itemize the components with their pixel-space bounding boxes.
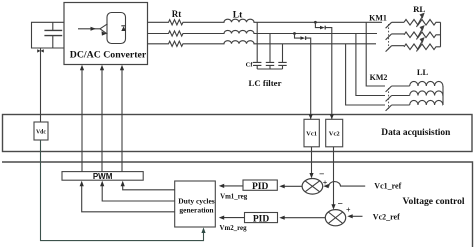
KM2 switch row 3 — [386, 105, 410, 111]
wire Vc2 box down to junction 2 — [333, 147, 335, 205]
RL arrow row 2 — [417, 26, 424, 40]
junction2 to PID2 wire — [284, 217, 325, 219]
wire into Vc2 box with arrow — [331, 115, 333, 119]
LL coil row 2 — [410, 91, 443, 96]
svg-text:KM2: KM2 — [370, 73, 388, 82]
svg-text:KM1: KM1 — [369, 14, 387, 23]
summing junction 2 — [325, 210, 345, 226]
LC filter common rail — [257, 68, 282, 70]
PID2 to duty wire — [224, 217, 245, 219]
KM2 tap from line 3 — [346, 44, 385, 105]
svg-text:PID: PID — [252, 182, 269, 192]
KM1 switch row 2 — [386, 34, 404, 40]
svg-text:LL: LL — [417, 67, 429, 77]
LC filter capacitor branch 1 — [253, 22, 261, 69]
svg-text:Data acquisistion: Data acquisistion — [381, 128, 451, 138]
Vc1 box — [304, 119, 319, 147]
svg-text:Vc1: Vc1 — [306, 131, 317, 138]
phase line 1 with Rt and Lt — [148, 19, 383, 25]
KM2 tap from line 1 — [366, 22, 385, 86]
svg-text:Duty cycles: Duty cycles — [178, 196, 215, 205]
LL right common vertical — [442, 86, 444, 105]
wire Vc1 box to junction 1 — [311, 147, 313, 174]
Vdc sensor tap (bowtie) — [37, 49, 44, 52]
svg-text:Voltage control: Voltage control — [403, 196, 465, 207]
IGBT symbol inside converter — [78, 13, 126, 44]
wire: dc bus tap down to Vdc box — [40, 48, 42, 122]
svg-text:Vm2_reg: Vm2_reg — [220, 225, 248, 232]
svg-text:DC/AC Converter: DC/AC Converter — [70, 50, 147, 61]
svg-text:LC filter: LC filter — [249, 78, 282, 88]
sensor tap on line 2 to Vc1 — [293, 32, 311, 115]
Vdc box — [34, 122, 48, 140]
DC/AC converter box U1 — [64, 3, 148, 65]
KM2 switch row 2 — [386, 96, 410, 102]
Vc2 box — [326, 119, 343, 147]
svg-text:Vc2: Vc2 — [329, 131, 340, 138]
summing junction 1 — [302, 179, 323, 195]
PWM box — [62, 172, 143, 181]
KM2 tap from line 2 — [356, 34, 385, 96]
KM2 linkage dashed — [388, 88, 390, 109]
LL coil row 1 — [410, 81, 443, 86]
RL right common vertical — [440, 22, 442, 47]
voltage control band — [2, 162, 473, 247]
PID1 box — [243, 180, 277, 190]
phase line 2 with Rt and Lt — [148, 30, 378, 36]
KM1 switch row 1 — [386, 22, 404, 28]
svg-text:+: + — [346, 206, 351, 215]
svg-text:Lt: Lt — [233, 11, 243, 21]
RL arrow row 1 — [417, 14, 424, 28]
dc bus loop wire — [32, 22, 65, 48]
svg-text:generation: generation — [179, 205, 214, 214]
svg-text:Rt: Rt — [172, 9, 182, 19]
LL coil row 3 — [410, 100, 443, 105]
PID2 box — [245, 213, 278, 223]
duty to PWM wire 1 — [123, 186, 175, 190]
svg-text:Vc1_ref: Vc1_ref — [374, 181, 401, 190]
capacitor C (dc link) — [44, 22, 62, 48]
KM1 linkage dashed — [388, 24, 390, 50]
svg-text:Cf: Cf — [246, 62, 254, 69]
junction1 to PID1 wire — [284, 185, 302, 187]
svg-text:Vdc: Vdc — [36, 130, 46, 136]
svg-text:−: − — [338, 200, 343, 210]
duty cycles generation box — [175, 181, 216, 227]
KM1 switch row 3 — [386, 46, 404, 52]
PWM to converter wire 2 — [101, 70, 103, 172]
sensor tap on line 1 to Vc2 — [314, 21, 332, 115]
duty to PWM wire 3 — [82, 186, 175, 212]
PID1 to duty wire — [224, 185, 244, 187]
svg-text:PID: PID — [253, 214, 270, 224]
svg-text:Vc2_ref: Vc2_ref — [373, 212, 400, 221]
svg-text:RL: RL — [413, 4, 425, 14]
LC filter capacitor branch 3 — [278, 44, 286, 69]
svg-text:Vm1_reg: Vm1_reg — [220, 194, 248, 201]
duty to PWM wire 2 — [102, 186, 175, 202]
PWM to converter wire 3 — [121, 70, 123, 172]
RL resistor row 1 — [404, 20, 441, 26]
PWM to converter wire 1 — [81, 70, 83, 172]
svg-text:PWM: PWM — [93, 172, 113, 181]
duty cycles generation label — [178, 196, 215, 214]
KM2 switch row 1 — [386, 86, 410, 92]
data acquisition band — [3, 115, 473, 152]
Vc1_ref wire with hop — [328, 182, 365, 186]
phase line 3 with Rt and Lt — [148, 41, 377, 47]
Vdc feedback wire to duty box — [41, 140, 204, 241]
LC filter capacitor branch 2 — [266, 34, 274, 70]
RL arrow row 3 — [417, 38, 424, 52]
Vc2_ref wire — [352, 215, 363, 217]
RL resistor row 3 — [404, 44, 441, 50]
RL resistor row 2 — [404, 32, 441, 38]
wire into Vc1 box with arrow — [310, 115, 312, 119]
